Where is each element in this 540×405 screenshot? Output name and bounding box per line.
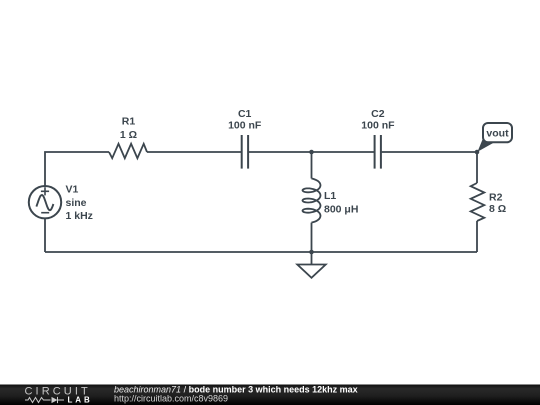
wire ground stub xyxy=(311,252,313,265)
svg-text:LAB: LAB xyxy=(68,396,93,405)
wire L1 to bottom rail xyxy=(311,223,313,252)
node junction vout xyxy=(475,150,480,155)
svg-text:L1: L1 xyxy=(324,190,336,202)
wire top-left horizontal V1 to R1 xyxy=(45,152,109,186)
svg-text:R2: R2 xyxy=(489,191,503,203)
svg-text:100 nF: 100 nF xyxy=(228,120,262,132)
svg-text:http://circuitlab.com/c8v9869: http://circuitlab.com/c8v9869 xyxy=(114,393,228,403)
svg-text:1 kHz: 1 kHz xyxy=(66,210,93,222)
wire node to L1 xyxy=(311,152,313,179)
svg-text:8 Ω: 8 Ω xyxy=(489,203,506,215)
svg-text:vout: vout xyxy=(486,128,509,140)
capacitor C1 xyxy=(242,135,248,169)
node junction C1-L1-C2 xyxy=(309,150,314,155)
resistor R1 xyxy=(109,144,147,158)
svg-text:1 Ω: 1 Ω xyxy=(120,129,137,141)
resistor R2 xyxy=(471,183,485,221)
footer bar xyxy=(0,385,540,405)
svg-text:R1: R1 xyxy=(122,116,136,128)
logo resistor-diode squiggle xyxy=(25,397,64,403)
wire bottom rail xyxy=(45,251,477,253)
wire V1 to bottom rail xyxy=(44,218,46,252)
vout flag xyxy=(478,123,513,152)
wire R1 to C1 xyxy=(147,151,241,153)
svg-text:V1: V1 xyxy=(66,184,79,196)
wire vout node to R2 xyxy=(476,152,478,183)
inductor L1 xyxy=(303,179,321,223)
ground xyxy=(297,265,325,278)
wire C1 to C2 xyxy=(249,151,374,153)
svg-text:100 nF: 100 nF xyxy=(361,120,395,132)
svg-text:800 μH: 800 μH xyxy=(324,204,358,216)
svg-text:C2: C2 xyxy=(371,108,385,120)
svg-text:C1: C1 xyxy=(238,108,252,120)
node junction ground xyxy=(309,250,314,255)
wire R2 to bottom rail xyxy=(476,221,478,252)
capacitor C2 xyxy=(375,135,381,169)
voltage source V1 xyxy=(29,186,61,218)
svg-text:sine: sine xyxy=(66,197,87,209)
wire C2 to vout node xyxy=(382,151,477,153)
